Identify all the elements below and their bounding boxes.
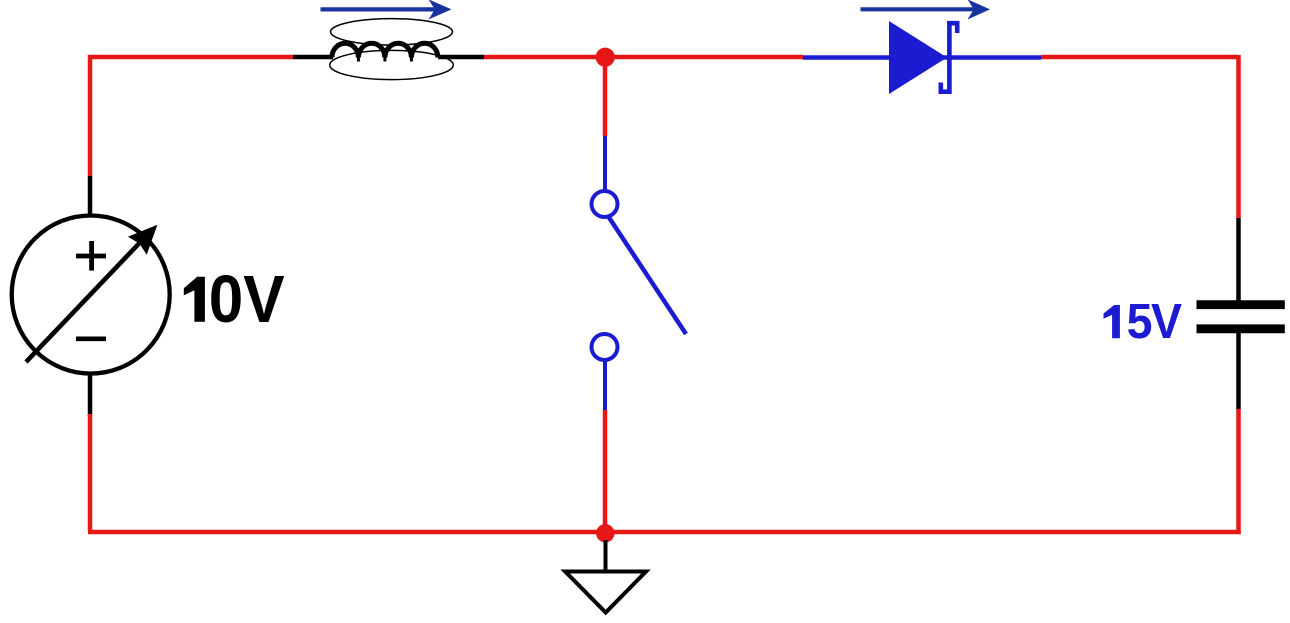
svg-text:5V: 5V — [1127, 295, 1182, 350]
svg-text:0V: 0V — [209, 262, 285, 336]
